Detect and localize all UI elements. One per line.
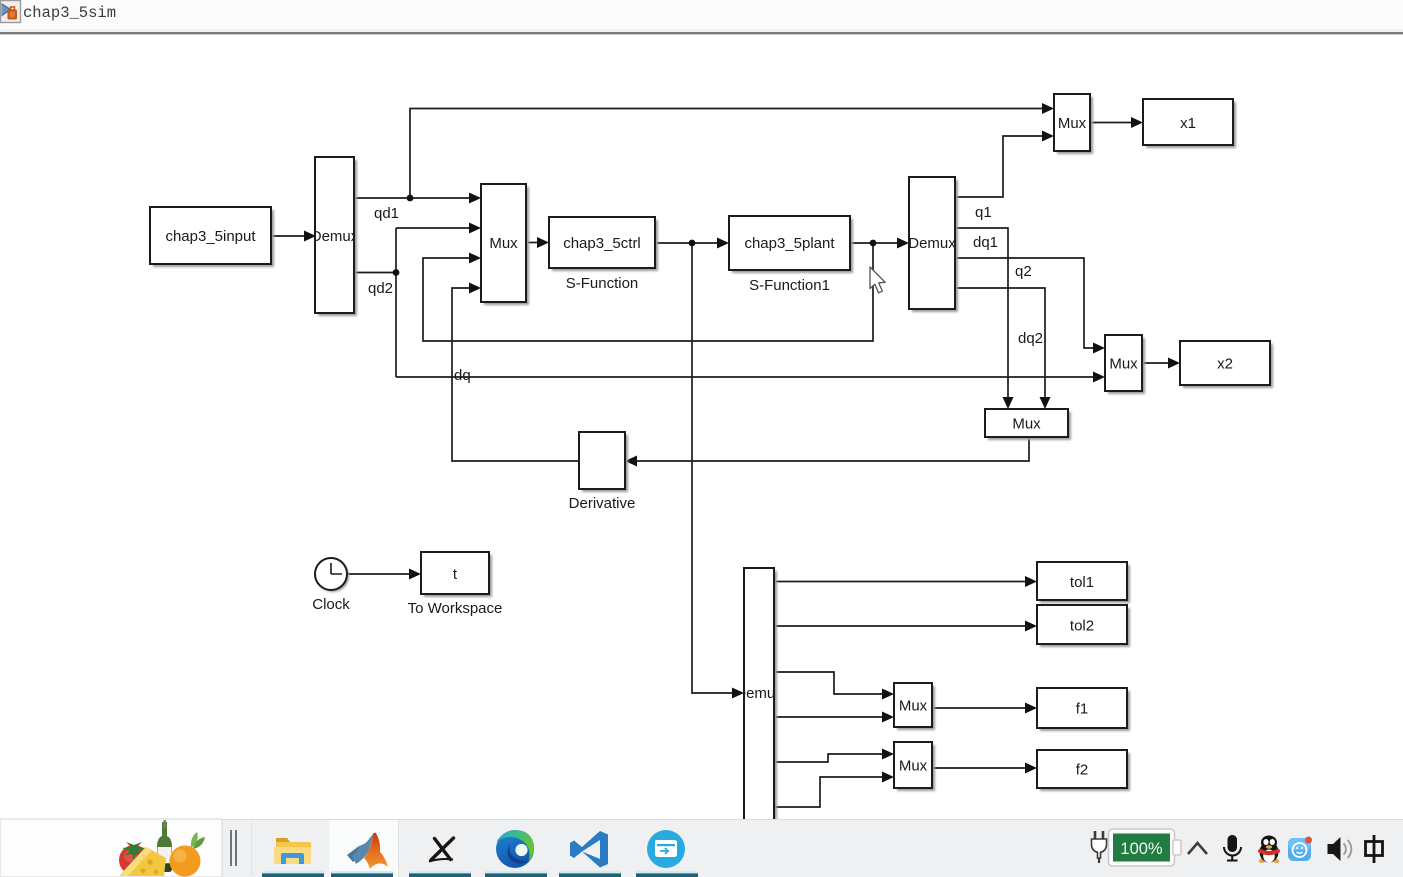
cheese: [119, 847, 166, 876]
wire derivative out to mux1 in4: [452, 288, 579, 461]
node qd1: [407, 195, 414, 202]
arrow into muxT in1: [1042, 103, 1054, 114]
arrow into muxX2 in1: [1093, 343, 1105, 354]
block MuxF2: [894, 742, 935, 791]
arrow into mux1 in4: [469, 283, 481, 294]
arrow into workspace: [409, 569, 421, 580]
blocks: [150, 94, 1273, 821]
block Derivative: [569, 432, 636, 512]
wire muxX2 out to x2: [1142, 362, 1168, 364]
wire demux3 out3 to muxF1 in1: [774, 672, 882, 694]
svg-text:dq1: dq1: [973, 234, 998, 251]
orange leaves: [193, 837, 205, 849]
matlab icon: [347, 833, 388, 869]
svg-text:Derivative: Derivative: [569, 495, 636, 512]
tomato: [119, 845, 149, 875]
svg-text:S-Function1: S-Function1: [749, 277, 830, 294]
title bar: [0, 0, 1403, 34]
arrow down into muxH left: [1003, 397, 1014, 409]
block f1: [1037, 688, 1130, 731]
arrow into demux1: [304, 231, 316, 242]
arrowheads: [304, 103, 1180, 783]
block Demux2: [908, 177, 958, 312]
wire muxT out to x1: [1090, 122, 1131, 124]
block chap3_5input: [150, 207, 274, 267]
wire clock to workspace: [347, 573, 409, 575]
arrow into x2: [1168, 358, 1180, 369]
wire dq1: demux2 out2 down to muxH: [955, 228, 1008, 398]
tray: battery 100%: [1109, 829, 1182, 866]
block MuxF1: [894, 683, 935, 730]
food picture widget: [119, 820, 205, 877]
arrow into f2: [1025, 763, 1037, 774]
wire q2: demux2 out3 to muxX2 in1: [955, 258, 1093, 348]
svg-text:chap3_5input: chap3_5input: [165, 228, 256, 245]
taskbar widget white box: [0, 819, 222, 877]
svg-text:S-Function: S-Function: [566, 275, 639, 292]
wire input to demux1: [271, 235, 304, 237]
arrow into x1: [1131, 117, 1143, 128]
block MuxH: [985, 409, 1071, 440]
block Clock: [312, 558, 350, 613]
wire muxF2 out to f2: [932, 767, 1025, 769]
svg-text:tol2: tol2: [1070, 618, 1094, 635]
arrow into derivative (pointing left): [625, 456, 637, 467]
signal labels: [368, 204, 1043, 384]
svg-text:To Workspace: To Workspace: [408, 600, 503, 617]
wine bottle: [157, 822, 172, 871]
tray: chinese IME indicator: [1366, 835, 1383, 863]
arrow into tol2: [1025, 621, 1037, 632]
block To Workspace: [408, 552, 503, 617]
arrow into muxF2 in2: [882, 772, 894, 783]
arrow into muxF1 in2: [882, 712, 894, 723]
svg-text:f1: f1: [1076, 701, 1089, 718]
arrow into ctrl: [537, 237, 549, 248]
arrow into tol1: [1025, 576, 1037, 587]
arrow into muxT in2: [1042, 131, 1054, 142]
arrow down into muxH right: [1040, 397, 1051, 409]
arrow into muxX2 in2: [1093, 372, 1105, 383]
app indicator bars: [262, 871, 698, 877]
wire plant feedback to mux1 in3: [423, 243, 873, 341]
simulink file icon: [1, 1, 21, 23]
svg-text:Mux: Mux: [1012, 416, 1041, 433]
file explorer icon: [274, 838, 311, 864]
block chap3_5ctrl: [549, 217, 658, 292]
wire q1: demux2 out1 to muxT in2: [955, 136, 1042, 197]
svg-text:q2: q2: [1015, 263, 1032, 280]
arrow into demux2: [897, 238, 909, 249]
block Demux3: [735, 568, 783, 821]
tray: microphone: [1224, 835, 1241, 861]
wire demux3 out1 to tol1: [774, 581, 1025, 583]
svg-text:chap3_5sim: chap3_5sim: [23, 4, 116, 22]
block MuxT: [1054, 94, 1093, 154]
block Mux1: [481, 184, 529, 305]
arrow into muxF1 in1: [882, 689, 894, 700]
svg-text:100%: 100%: [1120, 840, 1163, 858]
tray: speaker: [1328, 837, 1352, 861]
svg-text:dq2: dq2: [1018, 330, 1043, 347]
node ctrl-out: [689, 240, 696, 247]
edge icon: [496, 830, 534, 868]
svg-text:f2: f2: [1076, 762, 1089, 779]
tray: power plug icon: [1092, 831, 1107, 863]
wire muxF1 out to f1: [932, 707, 1025, 709]
wire plant out to demux2: [850, 242, 897, 244]
orange: [170, 846, 201, 877]
arrow into mux1 in3: [469, 253, 481, 264]
svg-text:Mux: Mux: [1058, 115, 1087, 132]
arrow into mux1 in1: [469, 193, 481, 204]
wire junction to demux3 down: [692, 243, 732, 693]
arrow into demux3: [732, 688, 744, 699]
wire mux1 out to ctrl: [526, 242, 537, 244]
wire demux3 out4 to muxF1 in2: [774, 716, 882, 718]
wire muxH out to derivative: [637, 437, 1029, 461]
matlab active button light background: [329, 820, 398, 877]
node plant-out: [870, 240, 877, 247]
wire qd2 to mux1 in2: [396, 227, 469, 229]
svg-text:q1: q1: [975, 204, 992, 221]
node qd2: [393, 269, 400, 276]
arrow into f1: [1025, 703, 1037, 714]
svg-text:tol1: tol1: [1070, 574, 1094, 591]
mouse cursor: [870, 267, 885, 293]
svg-text:x1: x1: [1180, 115, 1196, 132]
wire demux3 out6 to muxF2 in2: [774, 777, 882, 807]
block x1: [1143, 99, 1236, 148]
svg-text:Mux: Mux: [899, 758, 928, 775]
wire dq long line to muxX2 in2: [396, 376, 1093, 378]
arrow into muxF2 in1: [882, 749, 894, 760]
arrow into plant: [717, 238, 729, 249]
svg-text:Demux: Demux: [311, 228, 359, 245]
svg-text:dq: dq: [454, 367, 471, 384]
svg-text:Mux: Mux: [1109, 356, 1138, 373]
wire qd1 branch up to top long wire into muxT in1: [410, 109, 1042, 199]
svg-text:x2: x2: [1217, 356, 1233, 373]
latex X icon: [429, 838, 454, 862]
block tol2: [1037, 605, 1130, 647]
svg-text:chap3_5ctrl: chap3_5ctrl: [563, 235, 641, 252]
block x2: [1180, 341, 1273, 388]
svg-text:Mux: Mux: [899, 698, 928, 715]
wire qd1: demux1 out1 to mux1 in1: [354, 197, 469, 199]
svg-text:qd1: qd1: [374, 205, 399, 222]
arrow into mux1 in2: [469, 223, 481, 234]
wire qd2: demux1 out2 to junction: [354, 272, 396, 274]
svg-text:qd2: qd2: [368, 280, 393, 297]
wire demux3 out5 to muxF2 in1: [774, 754, 882, 762]
wire dq2: demux2 out4 down to muxH: [955, 288, 1045, 398]
block tol1: [1037, 562, 1130, 603]
vscode icon: [570, 831, 608, 868]
block Demux1: [311, 157, 359, 316]
svg-text:Demux: Demux: [908, 235, 956, 252]
svg-text:Mux: Mux: [489, 235, 518, 252]
junction dots: [393, 195, 877, 276]
svg-text:Clock: Clock: [312, 596, 350, 613]
block f2: [1037, 750, 1130, 791]
svg-text:chap3_5plant: chap3_5plant: [744, 235, 835, 252]
tray: blue smiley app: [1288, 837, 1312, 862]
block chap3_5plant: [729, 216, 853, 294]
taskbar grippy: [231, 830, 236, 866]
wire ctrl out to plant: [655, 242, 717, 244]
tray: chevron up: [1188, 843, 1207, 854]
blue folder-share app icon: [647, 830, 685, 868]
tray: qq penguin: [1258, 836, 1280, 864]
wire demux3 out2 to tol2: [774, 625, 1025, 627]
wire qd2 vertical branch: [395, 228, 397, 377]
block MuxX2: [1105, 335, 1145, 394]
